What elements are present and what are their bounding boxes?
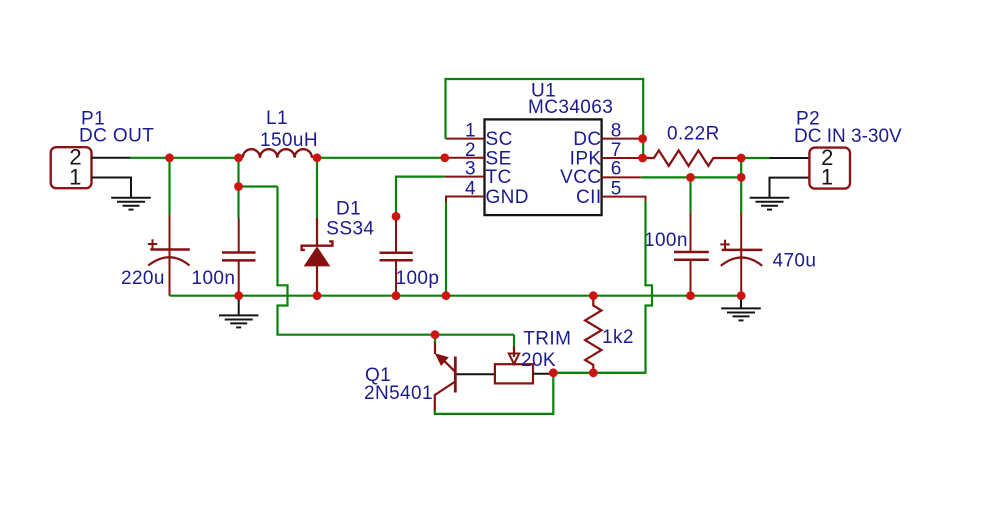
- junction node (U1 pin7): [638, 154, 647, 163]
- wire Q1 base black lead: [457, 373, 495, 375]
- wire trimmer node to 1k2 bottom horizontal: [553, 372, 645, 374]
- pin 7 IPK stub: [602, 157, 643, 159]
- svg-text:6: 6: [611, 159, 622, 180]
- wire P2 pin1 black stub to ground: [770, 178, 810, 198]
- junction node (L1 left / 100n): [234, 153, 243, 162]
- junction node (VCC / 100n right): [686, 173, 695, 182]
- junction node (rail / 100n right): [686, 291, 695, 300]
- wire 100n left top branch: [237, 158, 239, 218]
- wire U1 pin3 TC to 100p: [396, 177, 445, 217]
- svg-text:DC IN 3-30V: DC IN 3-30V: [794, 126, 902, 147]
- junction node (feedback branch): [234, 182, 243, 191]
- wire trimmer wiper drop: [513, 335, 515, 349]
- svg-text:SC: SC: [486, 129, 513, 150]
- svg-text:4: 4: [465, 179, 476, 200]
- svg-text:0.22R: 0.22R: [667, 123, 720, 144]
- connector P1: [51, 145, 92, 190]
- wire top loop pin1 to pin8/7: [446, 79, 644, 158]
- capacitor C 100n (left): [222, 218, 256, 296]
- svg-text:L1: L1: [266, 108, 288, 129]
- wire vertical between IPK node and VCC node: [740, 158, 742, 177]
- inductor L1: [243, 149, 312, 158]
- wire P2 pin2 black stub: [770, 157, 810, 159]
- junction node (rail / D1): [313, 291, 322, 300]
- transistor Q1 2N5401: [435, 342, 456, 412]
- ground rail wire: [170, 295, 742, 297]
- svg-text:470u: 470u: [773, 251, 817, 272]
- wire IPK node to P2 (green part): [741, 157, 770, 159]
- svg-text:2N5401: 2N5401: [364, 383, 433, 404]
- svg-text:VCC: VCC: [560, 167, 601, 188]
- potentiometer TRIM 20K body: [495, 364, 533, 383]
- svg-text:D1: D1: [336, 199, 361, 220]
- svg-text:100n: 100n: [192, 268, 236, 289]
- pin 3 TC stub: [445, 176, 485, 178]
- svg-text:1: 1: [465, 121, 476, 142]
- svg-text:100p: 100p: [396, 268, 440, 289]
- wire 470u top branch: [740, 177, 742, 213]
- junction node (rail / 100n left): [234, 291, 243, 300]
- pin 6 VCC stub: [602, 176, 641, 178]
- junction node (P1 / 220u): [165, 153, 174, 162]
- svg-text:20K: 20K: [521, 350, 556, 371]
- ground (P1): [111, 198, 151, 210]
- svg-text:150uH: 150uH: [260, 130, 318, 151]
- svg-text:DC OUT: DC OUT: [79, 126, 154, 147]
- junction node (VCC / 470u): [737, 173, 746, 182]
- op-amp box U1 MC34063: [485, 119, 602, 215]
- junction node (rail / 1k2 top): [589, 291, 598, 300]
- wire P1 pin1 black stub to ground: [92, 178, 132, 198]
- junction node (feedback / Q1 collector): [431, 330, 440, 339]
- wire VCC net pin6: [641, 176, 741, 178]
- pin 2 SE stub: [445, 157, 485, 159]
- ground (rail): [219, 296, 259, 328]
- svg-text:TC: TC: [486, 167, 512, 188]
- svg-text:5: 5: [611, 179, 622, 200]
- pin 8 DC stub: [602, 138, 643, 140]
- pin 1 SC stub: [446, 138, 485, 140]
- capacitor C 100p: [380, 216, 413, 295]
- junction node (100p top): [392, 212, 401, 221]
- pin 4 GND stub: [446, 197, 485, 203]
- svg-text:CII: CII: [576, 187, 601, 208]
- junction node (1k2 bottom): [589, 368, 598, 377]
- svg-text:3: 3: [465, 159, 476, 180]
- junction node (U1 pin2 SE): [440, 153, 449, 162]
- svg-text:DC: DC: [573, 129, 601, 150]
- capacitor C 470u (polarized): [720, 213, 762, 296]
- resistor R 0.22R: [643, 150, 742, 166]
- svg-text:MC34063: MC34063: [528, 97, 613, 118]
- wire D1 top branch: [316, 158, 318, 218]
- wire P1 pin2 black stub: [92, 157, 132, 159]
- svg-text:220u: 220u: [121, 268, 165, 289]
- junction node (L1 right / D1): [313, 153, 322, 162]
- wire TRIM right black lead: [533, 373, 551, 375]
- svg-text:1k2: 1k2: [602, 327, 634, 348]
- capacitor C 220u (polarized): [148, 215, 190, 296]
- junction node (rail / 100p): [392, 291, 401, 300]
- ground (P2): [750, 198, 790, 210]
- junction node (rail / 470u / ground): [737, 291, 746, 300]
- TRIM wiper arrow: [509, 347, 519, 365]
- wire 100n right top branch: [689, 177, 691, 213]
- svg-text:TRIM: TRIM: [523, 329, 571, 350]
- svg-text:1: 1: [821, 164, 834, 189]
- capacitor C 100n (right): [674, 214, 709, 296]
- junction node (U1 pin8): [638, 134, 647, 143]
- svg-text:SS34: SS34: [326, 218, 374, 239]
- ground (470u, below rail): [721, 296, 761, 321]
- junction node (0.22R right / P2): [737, 154, 746, 163]
- connector P2: [809, 145, 850, 190]
- svg-text:8: 8: [611, 121, 622, 142]
- wire L1 right to U1 pin2: [317, 157, 445, 159]
- wire feedback branch from 100n node: [239, 185, 278, 187]
- wire U1 pin4 GND down to rail: [445, 202, 447, 296]
- wire Q1 emitter loop to trimmer right node: [435, 373, 554, 414]
- pin 5 CII stub: [602, 197, 646, 201]
- wire U1 pin5 CII down with hop over rail: [553, 201, 652, 373]
- diode D1 SS34 (schottky): [302, 218, 333, 296]
- junction node (rail / pin4): [442, 291, 451, 300]
- svg-text:1: 1: [69, 164, 82, 189]
- resistor R 1k2: [585, 296, 601, 373]
- junction node (TRIM right): [549, 368, 558, 377]
- svg-text:GND: GND: [486, 187, 529, 208]
- wire feedback vertical with hop over ground rail: [278, 187, 515, 335]
- wire 220u top branch: [168, 158, 170, 215]
- svg-text:100n: 100n: [644, 230, 688, 251]
- wire Q1 collector short drop: [434, 335, 436, 343]
- wire main net P1 to L1: [130, 157, 239, 159]
